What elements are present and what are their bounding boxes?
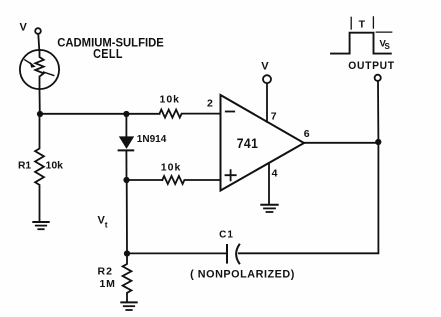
svg-text:CELL: CELL [93, 47, 123, 61]
svg-text:741: 741 [237, 135, 259, 151]
svg-text:2: 2 [207, 97, 213, 109]
svg-text:10k: 10k [46, 160, 64, 172]
svg-text:1M: 1M [100, 278, 116, 290]
svg-text:V: V [20, 22, 28, 34]
svg-text:T: T [359, 18, 366, 30]
svg-text:t: t [105, 219, 108, 229]
svg-text:OUTPUT: OUTPUT [348, 60, 394, 73]
svg-text:1N914: 1N914 [137, 134, 167, 145]
svg-text:R2: R2 [98, 266, 113, 278]
svg-text:S: S [385, 42, 391, 51]
svg-text:C1: C1 [219, 230, 234, 241]
svg-text:10k: 10k [160, 94, 181, 106]
svg-text:R1: R1 [18, 161, 31, 172]
svg-text:( NONPOLARIZED): ( NONPOLARIZED) [190, 268, 295, 280]
svg-text:7: 7 [271, 110, 277, 122]
svg-text:10k: 10k [161, 162, 182, 174]
svg-text:6: 6 [304, 128, 310, 140]
svg-text:4: 4 [272, 167, 278, 179]
svg-text:V: V [261, 61, 269, 73]
